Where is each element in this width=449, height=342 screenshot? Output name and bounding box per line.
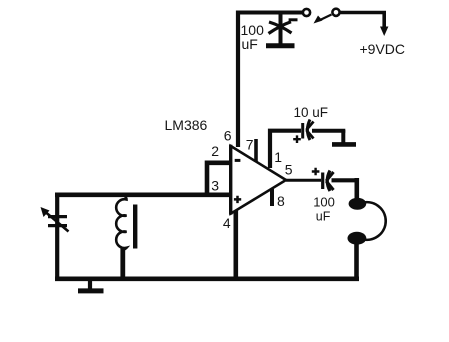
svg-text:uF: uF (316, 209, 331, 223)
svg-text:100: 100 (313, 195, 335, 210)
svg-text:3: 3 (211, 177, 219, 193)
svg-text:+9VDC: +9VDC (360, 41, 406, 57)
svg-text:2: 2 (211, 143, 219, 159)
svg-text:4: 4 (223, 215, 231, 231)
svg-text:7: 7 (246, 137, 254, 153)
svg-text:10 uF: 10 uF (294, 105, 329, 120)
svg-text:1: 1 (274, 149, 282, 165)
svg-text:6: 6 (224, 128, 232, 144)
svg-text:LM386: LM386 (165, 117, 208, 133)
svg-text:uF: uF (242, 36, 258, 52)
svg-text:8: 8 (277, 193, 285, 209)
svg-text:5: 5 (285, 162, 293, 178)
